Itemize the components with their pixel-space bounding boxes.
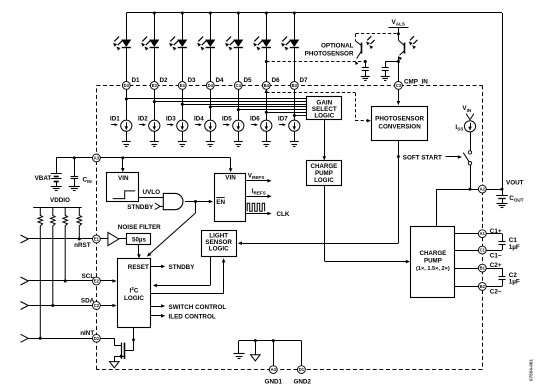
LED D1 bbox=[113, 37, 131, 51]
pin C2- (ball B2) bbox=[478, 283, 501, 296]
svg-text:GND1: GND1 bbox=[265, 378, 283, 385]
wire into reference block bbox=[229, 158, 233, 173]
svg-text:D4: D4 bbox=[216, 77, 225, 84]
charge pump box bbox=[411, 227, 455, 298]
filter capacitor ALS bbox=[381, 62, 390, 81]
ground triangle internal bbox=[251, 341, 261, 361]
svg-text:ILED CONTROL: ILED CONTROL bbox=[169, 314, 216, 321]
wire ID5 to ground bbox=[238, 131, 240, 142]
output I_REFS bbox=[245, 188, 272, 198]
svg-text:(1×, 1.5×, 2×): (1×, 1.5×, 2×) bbox=[416, 266, 450, 272]
svg-text:C1: C1 bbox=[480, 248, 486, 253]
ground bar internal bbox=[234, 341, 245, 359]
junction dot VIN/UVLO branch bbox=[121, 156, 124, 159]
pin D4 (ball D4) bbox=[206, 77, 224, 90]
node D7 bus tap bbox=[293, 114, 296, 117]
wire anode column D3 bbox=[182, 13, 184, 40]
node VDDIO rail bbox=[33, 197, 81, 207]
dashed wire to optional photosensor collector bbox=[356, 34, 399, 42]
current source ID6 bbox=[250, 115, 272, 131]
LED D7 bbox=[281, 37, 299, 51]
pull-up resistor for nRST bbox=[77, 208, 82, 239]
wire C1- pin to charge pump bbox=[455, 250, 502, 252]
ground ID7 bbox=[290, 142, 299, 147]
junction dot VOUT rail bbox=[501, 188, 504, 191]
flying capacitor C1 bbox=[499, 234, 520, 251]
wire pin to current source ID7 bbox=[294, 85, 296, 120]
wire to GND2 pin bbox=[301, 341, 303, 370]
input SDA bbox=[21, 297, 117, 309]
wire LED D6 cathode to pin bbox=[266, 47, 268, 85]
svg-text:PHOTOSENSOR: PHOTOSENSOR bbox=[375, 116, 424, 123]
current source ID1 bbox=[110, 115, 132, 131]
junction dot ground triangle bbox=[254, 339, 257, 342]
pin D5 (ball C4) bbox=[234, 77, 252, 90]
svg-text:LOGIC: LOGIC bbox=[124, 295, 144, 302]
svg-text:A4: A4 bbox=[271, 367, 277, 372]
svg-text:LOGIC: LOGIC bbox=[314, 112, 334, 119]
svg-text:E2: E2 bbox=[94, 278, 100, 283]
ground ID1 bbox=[122, 142, 131, 147]
svg-text:VIN: VIN bbox=[225, 174, 236, 181]
svg-text:B2: B2 bbox=[480, 284, 486, 289]
light sensor logic box bbox=[202, 231, 237, 257]
pin nRST (ball E1) bbox=[93, 235, 101, 243]
label noise filter bbox=[118, 224, 161, 231]
LED D2 bbox=[141, 37, 159, 51]
current source ID4 bbox=[194, 115, 216, 131]
wire ID6 to ground bbox=[266, 131, 268, 142]
LED D3 bbox=[169, 37, 187, 51]
charge pump logic box bbox=[307, 161, 342, 186]
svg-text:A3: A3 bbox=[94, 155, 100, 160]
svg-text:C1−: C1− bbox=[490, 252, 502, 259]
pin SCL (ball E2) bbox=[93, 277, 101, 285]
node D4 bus tap bbox=[209, 106, 212, 109]
svg-text:D1: D1 bbox=[132, 77, 141, 84]
pin C1+ (ball A1) bbox=[478, 228, 501, 237]
output CLK with clock waveform bbox=[245, 203, 290, 218]
svg-text:50µs: 50µs bbox=[132, 237, 146, 244]
svg-text:UVLO: UVLO bbox=[143, 189, 161, 196]
dashed wire photosensor emitter to node D6 bbox=[266, 61, 365, 63]
UVLO block bbox=[107, 173, 139, 202]
pin D1 (ball D3) bbox=[122, 77, 140, 90]
pin VOUT (ball A2) bbox=[478, 179, 523, 193]
svg-text:ID7: ID7 bbox=[278, 115, 288, 122]
svg-text:C4: C4 bbox=[236, 83, 242, 88]
output STNDBY bbox=[151, 264, 196, 271]
pin CMP_IN (ball C3) bbox=[395, 78, 429, 89]
svg-text:D2: D2 bbox=[160, 77, 169, 84]
wire ID1 to ground bbox=[126, 131, 128, 142]
ground ID5 bbox=[234, 142, 243, 147]
svg-text:D3: D3 bbox=[124, 83, 130, 88]
svg-text:CHARGE: CHARGE bbox=[310, 163, 337, 170]
junction dots on top rail bbox=[153, 12, 296, 15]
svg-text:CONVERSION: CONVERSION bbox=[378, 123, 421, 130]
output V_REFS bbox=[245, 173, 272, 183]
gain select logic box bbox=[307, 97, 342, 120]
svg-text:nRST: nRST bbox=[74, 242, 91, 249]
wire bus line D3 to gain select logic bbox=[182, 104, 306, 106]
svg-text:SOFT START: SOFT START bbox=[403, 155, 442, 162]
wire i2c logic to interrupt transistor bbox=[125, 328, 135, 351]
wire AND gate to EN bbox=[185, 200, 213, 204]
svg-text:PHOTOSENSOR: PHOTOSENSOR bbox=[305, 50, 354, 57]
label optional photosensor bbox=[305, 43, 354, 58]
svg-text:OPTIONAL: OPTIONAL bbox=[321, 43, 354, 50]
wire charge pump to C2+ pin bbox=[455, 268, 502, 270]
pin VIN (ball A3) bbox=[93, 154, 101, 162]
wire gain select logic to charge pump logic bbox=[323, 120, 327, 161]
dashed wire gain select region to photosensor conversion bbox=[265, 89, 372, 123]
svg-text:C2+: C2+ bbox=[490, 262, 502, 269]
wire bus line D6 to gain select logic bbox=[266, 112, 306, 114]
svg-text:07564-001: 07564-001 bbox=[529, 359, 534, 381]
wire i2c logic to light sensor logic bbox=[151, 258, 226, 293]
transistor nINT open drain bbox=[114, 338, 125, 361]
wire to GND1 pin bbox=[273, 341, 275, 370]
ground ID4 bbox=[206, 142, 215, 147]
svg-text:D7: D7 bbox=[300, 77, 309, 84]
wire anode column D1 bbox=[126, 13, 128, 40]
ground C_IN bbox=[69, 187, 80, 191]
pull-up resistor for nINT bbox=[38, 208, 43, 338]
svg-text:C3: C3 bbox=[396, 83, 402, 88]
node D2 bus tap bbox=[153, 100, 156, 103]
svg-text:B3: B3 bbox=[292, 83, 298, 88]
node V_IN supply for soft start bbox=[462, 105, 473, 120]
noise filter buffer bbox=[108, 232, 127, 245]
wire ID2 to ground bbox=[154, 131, 156, 142]
svg-text:ID6: ID6 bbox=[250, 115, 260, 122]
svg-text:SDA: SDA bbox=[81, 297, 95, 304]
svg-text:ID3: ID3 bbox=[166, 115, 176, 122]
output ILED CONTROL bbox=[151, 314, 216, 321]
reference block VIN/EN bbox=[215, 174, 246, 222]
wire to ALS filter cap bbox=[385, 61, 398, 63]
svg-text:ID2: ID2 bbox=[138, 115, 148, 122]
svg-text:E1: E1 bbox=[94, 236, 100, 241]
wire top LED supply rail bbox=[126, 13, 502, 190]
dashed chip boundary bbox=[96, 85, 482, 369]
noise filter 50us box bbox=[127, 234, 151, 245]
pin GND1 (ball A4) bbox=[265, 366, 283, 386]
capacitor C_IN bbox=[71, 158, 93, 187]
svg-text:D6: D6 bbox=[272, 77, 281, 84]
svg-text:VDDIO: VDDIO bbox=[50, 197, 70, 204]
svg-text:VOUT: VOUT bbox=[506, 179, 524, 186]
node D1 bus tap bbox=[125, 98, 128, 101]
svg-text:B4: B4 bbox=[264, 83, 270, 88]
svg-text:B1: B1 bbox=[480, 266, 486, 271]
wire light sensor logic to i2c logic bbox=[153, 256, 211, 287]
svg-text:VIN: VIN bbox=[118, 175, 129, 182]
wire VOUT node bbox=[436, 189, 502, 191]
current source I_SS bbox=[455, 121, 475, 132]
svg-text:EN: EN bbox=[216, 199, 225, 206]
wire LED D5 cathode to pin bbox=[238, 47, 240, 85]
svg-text:C1+: C1+ bbox=[490, 228, 502, 235]
wire anode column D7 bbox=[294, 13, 296, 40]
current source ID3 bbox=[166, 115, 188, 131]
svg-text:A2: A2 bbox=[480, 187, 486, 192]
ground interrupt transistor bbox=[110, 362, 120, 368]
wire pin to current source ID3 bbox=[182, 85, 184, 120]
junction dot ALS filter branch bbox=[397, 60, 400, 63]
node V_ALS supply bbox=[389, 19, 409, 41]
i2c logic box bbox=[118, 259, 151, 328]
LED D5 bbox=[225, 37, 243, 51]
svg-text:GND2: GND2 bbox=[293, 378, 311, 385]
label UVLO and wire to AND gate bbox=[138, 189, 163, 198]
svg-text:STNDBY: STNDBY bbox=[127, 204, 154, 211]
flying capacitor C2 bbox=[499, 268, 520, 286]
wire ID7 to ground bbox=[294, 131, 296, 142]
pull-up resistor for SDA bbox=[51, 208, 56, 306]
node D3 bus tap bbox=[181, 103, 184, 106]
input SCL bbox=[21, 273, 117, 285]
capacitor C_OUT bbox=[496, 189, 524, 207]
input nINT bbox=[21, 330, 115, 342]
wire anode column D6 bbox=[266, 13, 268, 40]
wire LED D7 cathode to pin bbox=[294, 47, 296, 85]
pin nINT (ball D2) bbox=[93, 334, 101, 342]
svg-text:D2: D2 bbox=[94, 336, 100, 341]
soft start switch bbox=[463, 132, 471, 189]
node D6 bus tap bbox=[265, 111, 268, 114]
svg-text:E4: E4 bbox=[180, 83, 186, 88]
wire CMP_IN into photosensor conversion bbox=[397, 89, 401, 105]
photosensor conversion box bbox=[372, 107, 428, 141]
svg-text:1µF: 1µF bbox=[509, 244, 520, 251]
wire bus line D2 to gain select logic bbox=[154, 101, 306, 103]
AND gate standby/uvlo bbox=[163, 193, 183, 209]
junction dot enable node bbox=[194, 200, 197, 203]
ground ID3 bbox=[178, 142, 187, 147]
wire pin to current source ID5 bbox=[238, 85, 240, 120]
pin C2+ (ball B1) bbox=[478, 262, 501, 272]
wire into UVLO block bbox=[121, 158, 125, 172]
figure number bbox=[529, 359, 534, 381]
wire pin to current source ID4 bbox=[210, 85, 212, 120]
pin D6 (ball B4) bbox=[262, 77, 280, 90]
junction dot V_ALS branch bbox=[397, 32, 400, 35]
LED D6 bbox=[253, 37, 271, 51]
filter capacitor optional photosensor bbox=[361, 62, 370, 81]
battery VBAT bbox=[35, 158, 62, 187]
wire pin to current source ID6 bbox=[266, 85, 268, 120]
wire bus line D5 to gain select logic bbox=[238, 109, 306, 111]
svg-text:RESET: RESET bbox=[128, 264, 149, 271]
svg-text:CHARGE: CHARGE bbox=[419, 250, 446, 257]
wire internal ground net bbox=[239, 340, 301, 342]
svg-text:D5: D5 bbox=[244, 77, 253, 84]
pull-up resistor for SCL bbox=[63, 208, 68, 281]
wire bus line D7 to gain select logic bbox=[294, 115, 306, 117]
svg-text:ID4: ID4 bbox=[194, 115, 204, 122]
wire enable node to reset block (diagonal) bbox=[147, 202, 196, 257]
wire photosensor conversion to light sensor logic bbox=[238, 140, 400, 245]
svg-text:VBAT: VBAT bbox=[35, 175, 52, 182]
current source ID2 bbox=[138, 115, 160, 131]
svg-text:PUMP: PUMP bbox=[315, 170, 333, 177]
ground ID2 bbox=[150, 142, 159, 147]
phototransistor ALS (right) bbox=[398, 36, 417, 60]
LED D4 bbox=[197, 37, 215, 51]
current source ID7 bbox=[278, 115, 300, 131]
pin SDA (ball C2) bbox=[93, 302, 101, 310]
svg-text:SCL: SCL bbox=[82, 273, 95, 280]
label SOFT START with arrow to switch bbox=[403, 155, 462, 162]
ground ID6 bbox=[262, 142, 271, 147]
wire VOUT to charge pump bbox=[436, 189, 438, 227]
svg-text:LOGIC: LOGIC bbox=[209, 246, 229, 253]
node D5 bus tap bbox=[237, 108, 240, 111]
svg-text:CLK: CLK bbox=[277, 211, 290, 218]
svg-text:D4: D4 bbox=[208, 83, 214, 88]
wire VBAT rail to VIN bbox=[56, 157, 230, 159]
svg-text:D1: D1 bbox=[299, 367, 305, 372]
svg-text:A1: A1 bbox=[480, 231, 486, 236]
svg-text:C2: C2 bbox=[94, 303, 100, 308]
wire bus line D1 to gain select logic bbox=[126, 98, 306, 100]
junction dot soft start / VOUT bbox=[469, 188, 472, 191]
svg-text:C2−: C2− bbox=[490, 289, 502, 296]
junction dot on D6 column bbox=[265, 60, 268, 63]
output SWITCH CONTROL bbox=[151, 304, 227, 311]
wire LED D3 cathode to pin bbox=[182, 47, 184, 85]
svg-text:CMP_IN: CMP_IN bbox=[404, 78, 428, 85]
junction dot GND1 bbox=[272, 339, 275, 342]
wire charge pump logic to charge pump bbox=[325, 186, 411, 263]
pin D3 (ball E4) bbox=[178, 77, 196, 90]
svg-text:E3: E3 bbox=[152, 83, 158, 88]
wire C2- pin to charge pump bbox=[455, 286, 502, 288]
svg-text:ID5: ID5 bbox=[222, 115, 232, 122]
pin GND2 (ball D1) bbox=[293, 366, 311, 386]
wire LED D4 cathode to pin bbox=[210, 47, 212, 85]
pin D7 (ball B3) bbox=[290, 77, 308, 90]
phototransistor optional (left) bbox=[355, 36, 375, 65]
svg-text:PUMP: PUMP bbox=[424, 258, 442, 265]
svg-text:LOGIC: LOGIC bbox=[314, 177, 334, 184]
wire anode column D2 bbox=[154, 13, 156, 40]
wire anode column D4 bbox=[210, 13, 212, 40]
svg-text:1µF: 1µF bbox=[509, 279, 520, 286]
wire ID3 to ground bbox=[182, 131, 184, 142]
pin C1- (ball C1) bbox=[478, 246, 501, 259]
svg-text:I2C: I2C bbox=[130, 286, 139, 294]
wire LED D2 cathode to pin bbox=[154, 47, 156, 85]
wire pin to current source ID2 bbox=[154, 85, 156, 120]
current source ID5 bbox=[222, 115, 244, 131]
svg-text:nINT: nINT bbox=[80, 330, 94, 337]
svg-text:NOISE FILTER: NOISE FILTER bbox=[118, 224, 161, 231]
wire ID4 to ground bbox=[210, 131, 212, 142]
svg-text:D3: D3 bbox=[188, 77, 197, 84]
svg-text:STNDBY: STNDBY bbox=[169, 264, 196, 271]
wire anode column D5 bbox=[238, 13, 240, 40]
wire pin to current source ID1 bbox=[126, 85, 128, 120]
pin D2 (ball E3) bbox=[150, 77, 168, 90]
junction dot left filter cap bbox=[364, 60, 367, 63]
junction dot C_IN bbox=[73, 156, 76, 159]
input nRST bbox=[21, 235, 108, 249]
wire LED D1 cathode to pin bbox=[126, 47, 128, 85]
label STNDBY input chevron bbox=[127, 203, 163, 211]
wire bus line D4 to gain select logic bbox=[210, 106, 306, 108]
ground VBAT bbox=[51, 187, 62, 191]
svg-text:ID1: ID1 bbox=[110, 115, 120, 122]
svg-text:SWITCH CONTROL: SWITCH CONTROL bbox=[169, 304, 227, 311]
wire noise filter to reset bbox=[137, 244, 141, 258]
wire charge pump to C1+ pin bbox=[455, 233, 502, 235]
wire ALS emitter down to CMP_IN bbox=[398, 56, 400, 85]
